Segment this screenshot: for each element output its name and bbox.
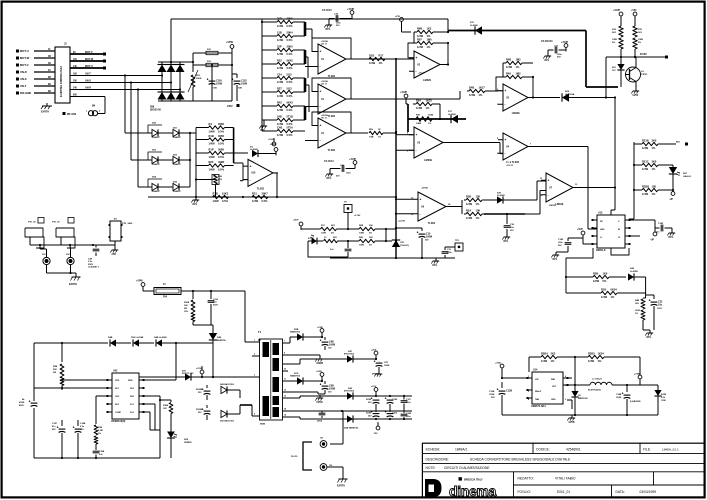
svg-text:1/4W: 1/4W (277, 38, 284, 42)
wire down to transformer (192, 290, 245, 340)
diode D61 2N4007 (158, 128, 190, 140)
output wire U3 (448, 143, 503, 154)
svg-text:R4B: R4B (635, 299, 640, 302)
svg-text:0.5%: 0.5% (262, 199, 269, 203)
pin 140 MOT-U stub (70, 65, 106, 70)
svg-text:TL084: TL084 (328, 115, 336, 118)
svg-text:1/4W: 1/4W (466, 216, 473, 220)
svg-text:R2B5: R2B5 (588, 351, 595, 355)
svg-text:1/4W: 1/4W (612, 38, 617, 41)
resistor 21B ladder row 2 (271, 30, 299, 42)
resistor R1C (324, 237, 360, 243)
wire bus to U1.C (304, 84, 318, 141)
svg-text:1/4W: 1/4W (209, 142, 216, 146)
svg-text:U10: U10 (251, 172, 256, 175)
resistor R1BB vert (94, 420, 103, 450)
svg-text:1%: 1% (635, 313, 638, 315)
svg-text:42548901: 42548901 (566, 447, 581, 451)
svg-text:GND: GND (551, 399, 556, 401)
svg-text:1/4W: 1/4W (209, 155, 216, 159)
svg-text:(0V2): (0V2) (317, 421, 322, 423)
transistor Q1 TIP31 (625, 67, 648, 83)
earth ground of connector (41, 103, 52, 114)
svg-text:D4A SB5B7/02: D4A SB5B7/02 (344, 426, 359, 429)
terminal +15UP mid (400, 92, 408, 104)
svg-text:FT0_30: FT0_30 (52, 222, 60, 224)
svg-text:R10B: R10B (184, 302, 190, 304)
title DESCRIZIONE (426, 457, 572, 461)
capacitor C142 (558, 238, 583, 252)
svg-text:DPL: DPL (669, 236, 674, 239)
svg-text:CF-B1U13: CF-B1U13 (541, 40, 553, 43)
svg-text:22n: 22n (510, 227, 514, 229)
svg-text:RIF-GN2: RIF-GN2 (67, 114, 77, 116)
svg-text:39K: 39K (53, 369, 57, 371)
svg-text:VITALI FABIO: VITALI FABIO (555, 477, 576, 481)
svg-text:DPL: DPL (647, 336, 652, 339)
label +4,74V (398, 220, 406, 223)
svg-text:0.5%: 0.5% (287, 38, 294, 42)
jack J02 (66, 245, 74, 265)
svg-text:TL084: TL084 (328, 149, 336, 152)
bridge diode D98d lower (158, 92, 167, 100)
resistor R2A 10K (464, 191, 546, 221)
gnd module (110, 247, 118, 256)
svg-text:30K: 30K (369, 237, 373, 239)
svg-text:+20V: +20V (371, 350, 377, 352)
connector pin UN-R (16, 69, 55, 74)
diode D3 LL4148 (243, 147, 276, 158)
svg-text:+15/F/A: +15/F/A (321, 40, 328, 43)
svg-text:SB5B7/02: SB5B7/02 (290, 376, 301, 378)
svg-text:5%: 5% (612, 42, 615, 44)
inductor/cap rowB (372, 360, 389, 376)
terminal -UP mid (650, 228, 657, 241)
svg-text:R22: R22 (277, 58, 282, 62)
svg-text:1M2: 1M2 (516, 57, 522, 61)
mains wire bus (30, 244, 115, 246)
svg-text:SB5B7/02: SB5B7/02 (290, 332, 301, 334)
capacitor C6C rowC (320, 381, 335, 394)
wire bus to U3 inputs (396, 135, 414, 151)
svg-text:TAB: TAB (535, 398, 540, 401)
svg-text:R21C: R21C (642, 159, 649, 163)
terminal +15UP under ladder (268, 138, 276, 146)
svg-text:-: - (416, 69, 417, 73)
capacitor C129 (208, 291, 219, 325)
snubber bottom wire (193, 324, 213, 326)
wire module to bus (114, 244, 116, 246)
svg-text:R1B: R1B (213, 191, 218, 195)
svg-text:OSC: OSC (115, 396, 120, 398)
svg-text:+15UP: +15UP (268, 139, 275, 141)
svg-text:21B: 21B (277, 30, 282, 34)
svg-text:1K24: 1K24 (598, 351, 605, 355)
svg-text:0.5%: 0.5% (218, 155, 225, 159)
wire Q1 emitter to gnd (631, 82, 639, 98)
svg-text:DPL: DPL (261, 129, 266, 132)
svg-text:1%: 1% (428, 123, 431, 125)
capacitor C6B rowA (320, 337, 335, 350)
wire top rail into ladder (261, 19, 263, 23)
svg-text:450V: 450V (19, 404, 24, 407)
wire U1.C output to bus (351, 129, 397, 139)
svg-text:12: 12 (284, 390, 286, 392)
bridge diode D98a upper (158, 65, 167, 73)
svg-text:5%: 5% (369, 245, 372, 247)
diode D43 LL4148 (628, 267, 646, 293)
resistor R22 ladder row 4 (271, 58, 299, 70)
connector pin MOT-V (16, 62, 55, 67)
wire op2 to U5 input (351, 85, 498, 99)
terminal +V5B buck (495, 363, 532, 380)
resistor R42 ladder row 7 (271, 100, 299, 112)
svg-text:D42 BA157/02: D42 BA157/02 (220, 383, 235, 386)
svg-text:C12B: C12B (406, 413, 412, 415)
svg-text:E001_01: E001_01 (557, 490, 570, 494)
svg-text:5I13: 5I13 (287, 86, 293, 90)
svg-text:U42: U42 (113, 370, 118, 373)
resistor R1B4 vertical (159, 399, 173, 432)
terminal -UP right (669, 188, 675, 201)
diode D46 LL4148 (108, 336, 131, 347)
terminal +20V rowB (371, 350, 378, 360)
T1 pin stubs right (283, 341, 289, 418)
wire UN-R to bridge (70, 86, 180, 89)
wire viper drain (143, 342, 177, 380)
title bottom cells (514, 472, 705, 498)
diode D47 LL4148 (497, 192, 537, 204)
svg-text:-: - (416, 148, 417, 152)
bus bar node A (304, 22, 307, 36)
optocoupler LED U16 (308, 235, 323, 251)
svg-text:1/4W: 1/4W (642, 192, 649, 196)
earth under FL019 (327, 467, 348, 488)
svg-text:1/4W: 1/4W (359, 232, 364, 235)
svg-text:2N4007: 2N4007 (152, 136, 160, 139)
svg-text:1/4W: 1/4W (213, 199, 220, 203)
title REDATTO (518, 477, 576, 481)
terminal +V5N rowC (316, 371, 324, 381)
capacitor C49 Y-class (88, 245, 99, 269)
svg-text:-UP: -UP (650, 240, 654, 242)
T1 bottom label (260, 424, 266, 426)
diode D57 BYV27 (139, 371, 252, 381)
diode DC6 SB560 rowC (288, 373, 323, 385)
wire fuses left join (192, 53, 194, 63)
diode D4B MBR (571, 391, 588, 415)
svg-text:1/4W: 1/4W (277, 108, 284, 112)
rowC return (288, 392, 325, 404)
cap 2200M a (196, 385, 210, 400)
svg-text:LM339: LM339 (424, 159, 432, 162)
wire viper src down (159, 430, 161, 458)
feedback R49 1M2 (496, 71, 533, 97)
wire U4 out down (530, 144, 597, 230)
wire U2 out chain (440, 63, 449, 65)
resistor R23 (205, 160, 229, 172)
terminal +15UP top (347, 9, 355, 19)
title block row lines (422, 453, 704, 471)
resistor 20P ladder row 1 (271, 16, 299, 28)
IC U13 DM74 (592, 212, 631, 253)
svg-text:C147: C147 (52, 422, 58, 425)
svg-text:1/4W: 1/4W (277, 52, 284, 56)
svg-text:+15V: +15V (371, 386, 377, 388)
svg-text:4D: 4D (48, 62, 51, 65)
svg-text:470M: 470M (19, 401, 24, 404)
svg-text:300K: 300K (218, 122, 224, 126)
op-amp U3 LM339 (407, 127, 448, 162)
viper bottom rail (34, 457, 160, 459)
svg-text:1/4W: 1/4W (252, 199, 259, 203)
ladder left bus (262, 22, 271, 131)
svg-text:9K42: 9K42 (287, 58, 294, 62)
svg-text:2: 2 (565, 385, 566, 387)
svg-text:BYV27-100: BYV27-100 (182, 373, 194, 375)
svg-text:1K0: 1K0 (603, 271, 608, 275)
wire tap UN-R down (137, 88, 148, 187)
svg-text:1M0: 1M0 (427, 37, 433, 41)
wire to U7 inputs (537, 181, 546, 200)
rowA return wire (288, 355, 324, 365)
capacitor C13 small (330, 241, 351, 257)
svg-text:20P: 20P (277, 16, 282, 20)
svg-text:1/4W: 1/4W (209, 130, 216, 134)
svg-text:2N4007: 2N4007 (152, 190, 160, 193)
svg-text:DPL: DPL (545, 59, 550, 62)
IC U42 VIPER100 (107, 370, 145, 424)
gnd DPL right mid (643, 330, 653, 339)
svg-text:DESCRIZIONE:: DESCRIZIONE: (426, 457, 450, 461)
title DATA (616, 490, 657, 494)
opto bottom loop (308, 251, 348, 257)
svg-text:NOTE:: NOTE: (426, 466, 436, 470)
varistor RV1 (188, 62, 202, 101)
svg-text:2K2: 2K2 (551, 351, 556, 355)
svg-text:+REF: +REF (270, 143, 277, 146)
caps rowD (366, 396, 412, 408)
svg-text:1/4W: 1/4W (601, 295, 608, 299)
terminal +V5B rowA (317, 327, 324, 337)
wire T1 left pins (258, 339, 261, 341)
terminal -15V rowE (373, 422, 380, 435)
ladder right stubs (299, 22, 305, 131)
svg-text:BC/HY5/221B: BC/HY5/221B (588, 390, 601, 392)
svg-text:CIRCUITI DI ALIMENTAZIONE: CIRCUITI DI ALIMENTAZIONE (444, 466, 490, 470)
svg-text:30K7: 30K7 (262, 191, 269, 195)
wire bridge top to varistor (184, 61, 193, 63)
bridge label D98 SKD25-08 (150, 107, 161, 112)
T1 primary winding bars (263, 342, 270, 416)
svg-text:+15UP: +15UP (613, 10, 621, 12)
filter choke FTC2 (52, 218, 75, 249)
terminal +15V rowD (371, 386, 378, 396)
svg-text:KARTING 16MM90-2G12: KARTING 16MM90-2G12 (59, 66, 63, 97)
connector pin RIF-GND (16, 91, 55, 95)
svg-text:0V50: 0V50 (633, 94, 639, 97)
svg-text:+VPW: +VPW (136, 281, 143, 283)
op-amp U1.C TL084 (313, 118, 351, 152)
testpoint TK4 (344, 202, 361, 231)
resistor R3B 12K (464, 194, 497, 206)
svg-text:3: 3 (254, 375, 255, 377)
svg-text:R4B: R4B (506, 57, 511, 61)
svg-text:1/4W: 1/4W (277, 24, 284, 28)
wire U7 out (575, 184, 616, 189)
op-amp U6 TL084 (411, 187, 451, 226)
wire gnd pin3 (567, 400, 572, 409)
svg-text:1/4W: 1/4W (416, 106, 423, 110)
resistor R106 10K vert (184, 291, 195, 325)
svg-text:R2BB: R2BB (642, 184, 649, 188)
capacitor C148 (73, 420, 86, 458)
svg-text:9K43: 9K43 (287, 100, 294, 104)
svg-text:-15V: -15V (373, 433, 378, 435)
terminal +V0B (634, 374, 642, 386)
svg-text:1K17: 1K17 (479, 85, 486, 89)
svg-text:2N4007: 2N4007 (152, 163, 160, 166)
terminal +15VA (212, 376, 214, 378)
svg-text:1848A_01.1: 1848A_01.1 (662, 447, 679, 451)
svg-text:0.5%: 0.5% (287, 52, 294, 56)
wire UF3 right pins (629, 220, 655, 236)
wire bus to U1.B (304, 56, 318, 107)
svg-text:L1 330uH: L1 330uH (592, 379, 602, 381)
svg-text:SKD25-08: SKD25-08 (150, 110, 161, 112)
svg-text:FOGLIO:: FOGLIO: (518, 490, 531, 494)
terminal +VPW lower (136, 281, 154, 292)
svg-text:DPL: DPL (326, 28, 331, 31)
svg-text:C24: C24 (277, 72, 282, 76)
jack J01 (40, 245, 50, 265)
svg-text:10: 10 (284, 369, 286, 371)
svg-text:TL082: TL082 (512, 161, 520, 164)
resistor 22P ladder row 3 (271, 44, 299, 56)
svg-text:VIN: VIN (535, 379, 539, 381)
svg-text:1/4W: 1/4W (466, 202, 473, 206)
svg-text:20K4: 20K4 (287, 30, 294, 34)
svg-text:SCHEDA:: SCHEDA: (426, 447, 441, 451)
svg-text:MOT-U: MOT-U (20, 49, 29, 53)
svg-text:UN-R: UN-R (20, 70, 27, 74)
title FOGLIO (518, 490, 571, 494)
svg-text:5,6M: 5,6M (98, 430, 103, 432)
svg-text:EARTH: EARTH (69, 283, 77, 286)
svg-text:5T1B: 5T1B (287, 114, 293, 118)
resistor R27 ladder row 6 (271, 86, 299, 98)
svg-text:CR_11: CR_11 (321, 84, 327, 86)
svg-text:LL4148: LL4148 (448, 113, 456, 116)
resistor R2B4 2K2 (529, 351, 575, 363)
svg-text:12K: 12K (652, 184, 657, 188)
wire tap UN-T down (124, 74, 148, 133)
svg-text:1/4W: 1/4W (642, 167, 649, 171)
wire viper vdd (62, 380, 108, 390)
diode group output bus (189, 132, 191, 187)
T1 outline (260, 339, 283, 420)
resistor R21B (634, 138, 688, 150)
svg-text:1: 1 (254, 340, 255, 342)
svg-text:1M2: 1M2 (516, 71, 522, 75)
wire left down to main rail (195, 180, 197, 199)
svg-text:220M: 220M (366, 413, 371, 415)
svg-text:UM2575-ADJ: UM2575-ADJ (531, 405, 546, 408)
diode D60 2N4007 (148, 123, 162, 140)
svg-text:SCHEDA CONVERTITORE BRUSHLESS: SCHEDA CONVERTITORE BRUSHLESS SINUSOIDAL… (470, 457, 571, 461)
svg-text:+15/F/A: +15/F/A (421, 187, 428, 190)
svg-text:R5B: R5B (593, 271, 598, 275)
T1 secondary winding bars (273, 343, 280, 417)
svg-text:REDATTO:: REDATTO: (518, 477, 534, 481)
svg-text:D50 LL4148: D50 LL4148 (131, 336, 144, 339)
svg-text:+15UP: +15UP (349, 159, 357, 161)
svg-text:1%: 1% (98, 433, 101, 435)
svg-text:CF-#U12: CF-#U12 (324, 160, 334, 163)
svg-text:12V: 12V (612, 70, 616, 72)
svg-text:-: - (320, 65, 321, 69)
diode D64 2N4007 (148, 176, 162, 194)
diode D09 UL4003A (562, 91, 615, 102)
svg-text:TL084: TL084 (428, 222, 436, 225)
svg-text:9D: 9D (48, 84, 51, 86)
pin 90 MOT-V stub (70, 51, 106, 56)
svg-text:MOT-U: MOT-U (85, 65, 93, 68)
svg-text:DPL: DPL (553, 258, 558, 261)
op-amp U1.B TL084 (313, 84, 351, 118)
svg-text:-: - (420, 212, 421, 216)
svg-text:1/4W: 1/4W (417, 34, 424, 38)
resistor 24B ladder row 8 (271, 114, 299, 126)
svg-text:5,6V: 5,6V (661, 397, 666, 399)
svg-text:3K9: 3K9 (652, 138, 657, 142)
capacitor CAL 470M (19, 398, 37, 407)
svg-text:CODICE:: CODICE: (536, 447, 550, 451)
svg-text:13: 13 (284, 396, 286, 398)
wire to connector FL019 (330, 411, 343, 444)
wire to UF3 top (611, 188, 615, 215)
terminal +REF (270, 143, 278, 155)
svg-text:R3B: R3B (466, 194, 471, 198)
logo dinema D glyph (425, 479, 442, 497)
svg-text:100M: 100M (489, 394, 494, 396)
svg-text:100M: 100M (616, 397, 621, 399)
svg-text:1/4W: 1/4W (638, 38, 643, 41)
svg-text:LL4148: LL4148 (630, 270, 638, 273)
svg-text:2N4007: 2N4007 (173, 190, 181, 193)
wire tap UN-S down (130, 81, 148, 160)
svg-text:0.5%: 0.5% (218, 168, 225, 172)
svg-text:10u: 10u (658, 303, 663, 306)
title NOTE (426, 466, 491, 470)
svg-text:1/4W: 1/4W (277, 80, 284, 84)
svg-text:MOT-V: MOT-V (20, 63, 29, 67)
bridge top bus (158, 61, 184, 63)
diode D65 2N4007 (158, 182, 190, 194)
svg-text:D41 BA157/02: D41 BA157/02 (220, 420, 235, 423)
wire R2B4 junction drop (574, 357, 576, 393)
wire B-50V (606, 53, 668, 59)
svg-text:CR_11: CR_11 (321, 118, 327, 120)
svg-text:-: - (320, 139, 321, 143)
svg-text:1/4W: 1/4W (588, 359, 595, 363)
svg-text:R9B: R9B (417, 26, 422, 30)
svg-text:R97: R97 (417, 37, 422, 41)
svg-text:R2A: R2A (466, 208, 471, 212)
svg-text:D4B LL4148: D4B LL4148 (154, 336, 167, 339)
svg-text:5: 5 (254, 414, 255, 416)
svg-text:5%: 5% (331, 233, 334, 235)
